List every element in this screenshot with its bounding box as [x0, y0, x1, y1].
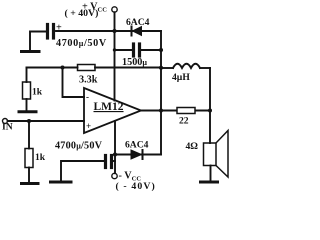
svg-text:1500µ: 1500µ — [122, 57, 147, 68]
svg-text:1k: 1k — [32, 87, 43, 98]
svg-text:+: + — [86, 121, 91, 131]
svg-text:3.3k: 3.3k — [79, 75, 98, 86]
svg-text:1k: 1k — [35, 152, 46, 163]
svg-text:-: - — [86, 92, 89, 102]
svg-text:+: + — [56, 23, 62, 34]
svg-text:( + 40V): ( + 40V) — [65, 8, 99, 19]
svg-text:LM12: LM12 — [94, 101, 124, 113]
svg-text:IN: IN — [2, 122, 13, 133]
svg-text:6AC4: 6AC4 — [125, 140, 149, 151]
svg-text:4Ω: 4Ω — [186, 141, 199, 152]
svg-text:4700µ/50V: 4700µ/50V — [56, 38, 107, 49]
svg-text:22: 22 — [179, 116, 189, 127]
svg-text:( - 40V): ( - 40V) — [116, 181, 156, 192]
svg-text:4µH: 4µH — [172, 72, 190, 83]
svg-text:4700µ/50V: 4700µ/50V — [55, 141, 103, 152]
svg-text:6AC4: 6AC4 — [126, 17, 150, 28]
